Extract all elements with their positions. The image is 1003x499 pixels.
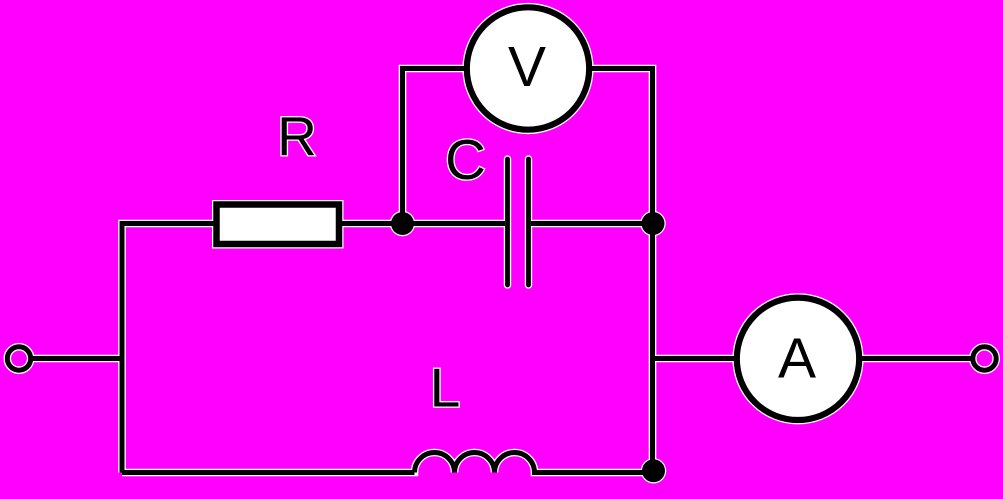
wire: node B branch to ammeter <box>650 356 740 361</box>
terminals halo <box>7 347 30 370</box>
wire: bottom rail to inductor <box>122 470 415 475</box>
wire: ammeter to right terminal <box>856 356 971 361</box>
wire: left vertical rail and top rail to capacitor <box>122 224 505 473</box>
capacitor C right plate <box>526 159 531 285</box>
node A (junction dot) <box>391 212 414 235</box>
node C (junction dot) <box>642 459 665 482</box>
resistor halo <box>217 205 340 245</box>
wire network halo <box>30 69 971 473</box>
wire: voltmeter to right vertical rail down to node C <box>586 69 653 473</box>
right terminal <box>973 347 996 370</box>
capacitor C left plate <box>505 159 510 285</box>
svg-text:A: A <box>778 327 816 391</box>
svg-text:R: R <box>277 105 317 167</box>
resistor R <box>217 205 340 245</box>
svg-text:L: L <box>430 357 461 419</box>
svg-text:C: C <box>445 128 486 191</box>
wire: capacitor right plate to node B <box>531 221 655 226</box>
voltmeter V <box>467 7 589 129</box>
left terminal <box>7 347 30 370</box>
node dots halo <box>390 211 415 236</box>
ammeter A <box>737 298 859 420</box>
wire: node A up to voltmeter <box>403 69 471 227</box>
svg-text:V: V <box>508 35 546 99</box>
inductor L <box>415 453 656 473</box>
meters halo <box>467 7 589 129</box>
node B (junction dot) <box>642 212 665 235</box>
capacitor plates halo <box>508 159 529 285</box>
wire: left terminal lead <box>30 356 122 361</box>
